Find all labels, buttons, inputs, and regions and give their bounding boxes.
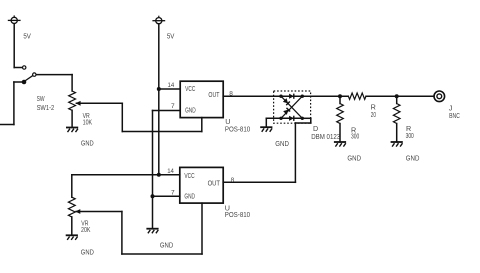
svg-text:5V: 5V [167,32,175,41]
svg-text:20K: 20K [81,225,91,234]
svg-text:7: 7 [171,103,175,110]
svg-text:GND: GND [184,192,195,201]
svg-text:GND: GND [406,154,420,163]
svg-text:5V: 5V [23,32,31,41]
svg-text:VCC: VCC [184,171,194,180]
svg-text:GND: GND [160,240,173,249]
svg-text:VCC: VCC [185,84,195,93]
svg-text:7: 7 [171,189,175,196]
svg-text:20: 20 [371,110,376,119]
svg-text:OUT: OUT [208,179,221,188]
svg-text:GND: GND [347,154,361,163]
svg-text:GND: GND [81,247,94,256]
svg-text:BNC: BNC [449,111,460,120]
svg-text:GND: GND [275,139,289,148]
svg-text:POS-810: POS-810 [225,210,250,219]
svg-text:14: 14 [167,168,174,175]
svg-text:14: 14 [168,82,175,89]
svg-text:SW1-2: SW1-2 [37,103,55,112]
svg-text:DBM 0123: DBM 0123 [311,132,340,141]
svg-text:SW: SW [37,94,45,103]
svg-text:10K: 10K [83,118,93,127]
svg-text:OUT: OUT [208,90,219,99]
svg-text:GND: GND [81,138,94,147]
svg-text:300: 300 [351,132,359,141]
svg-text:GND: GND [185,106,196,115]
svg-text:8: 8 [229,90,233,97]
svg-text:8: 8 [231,177,235,184]
svg-text:POS-810: POS-810 [225,124,250,133]
svg-text:300: 300 [406,131,414,140]
